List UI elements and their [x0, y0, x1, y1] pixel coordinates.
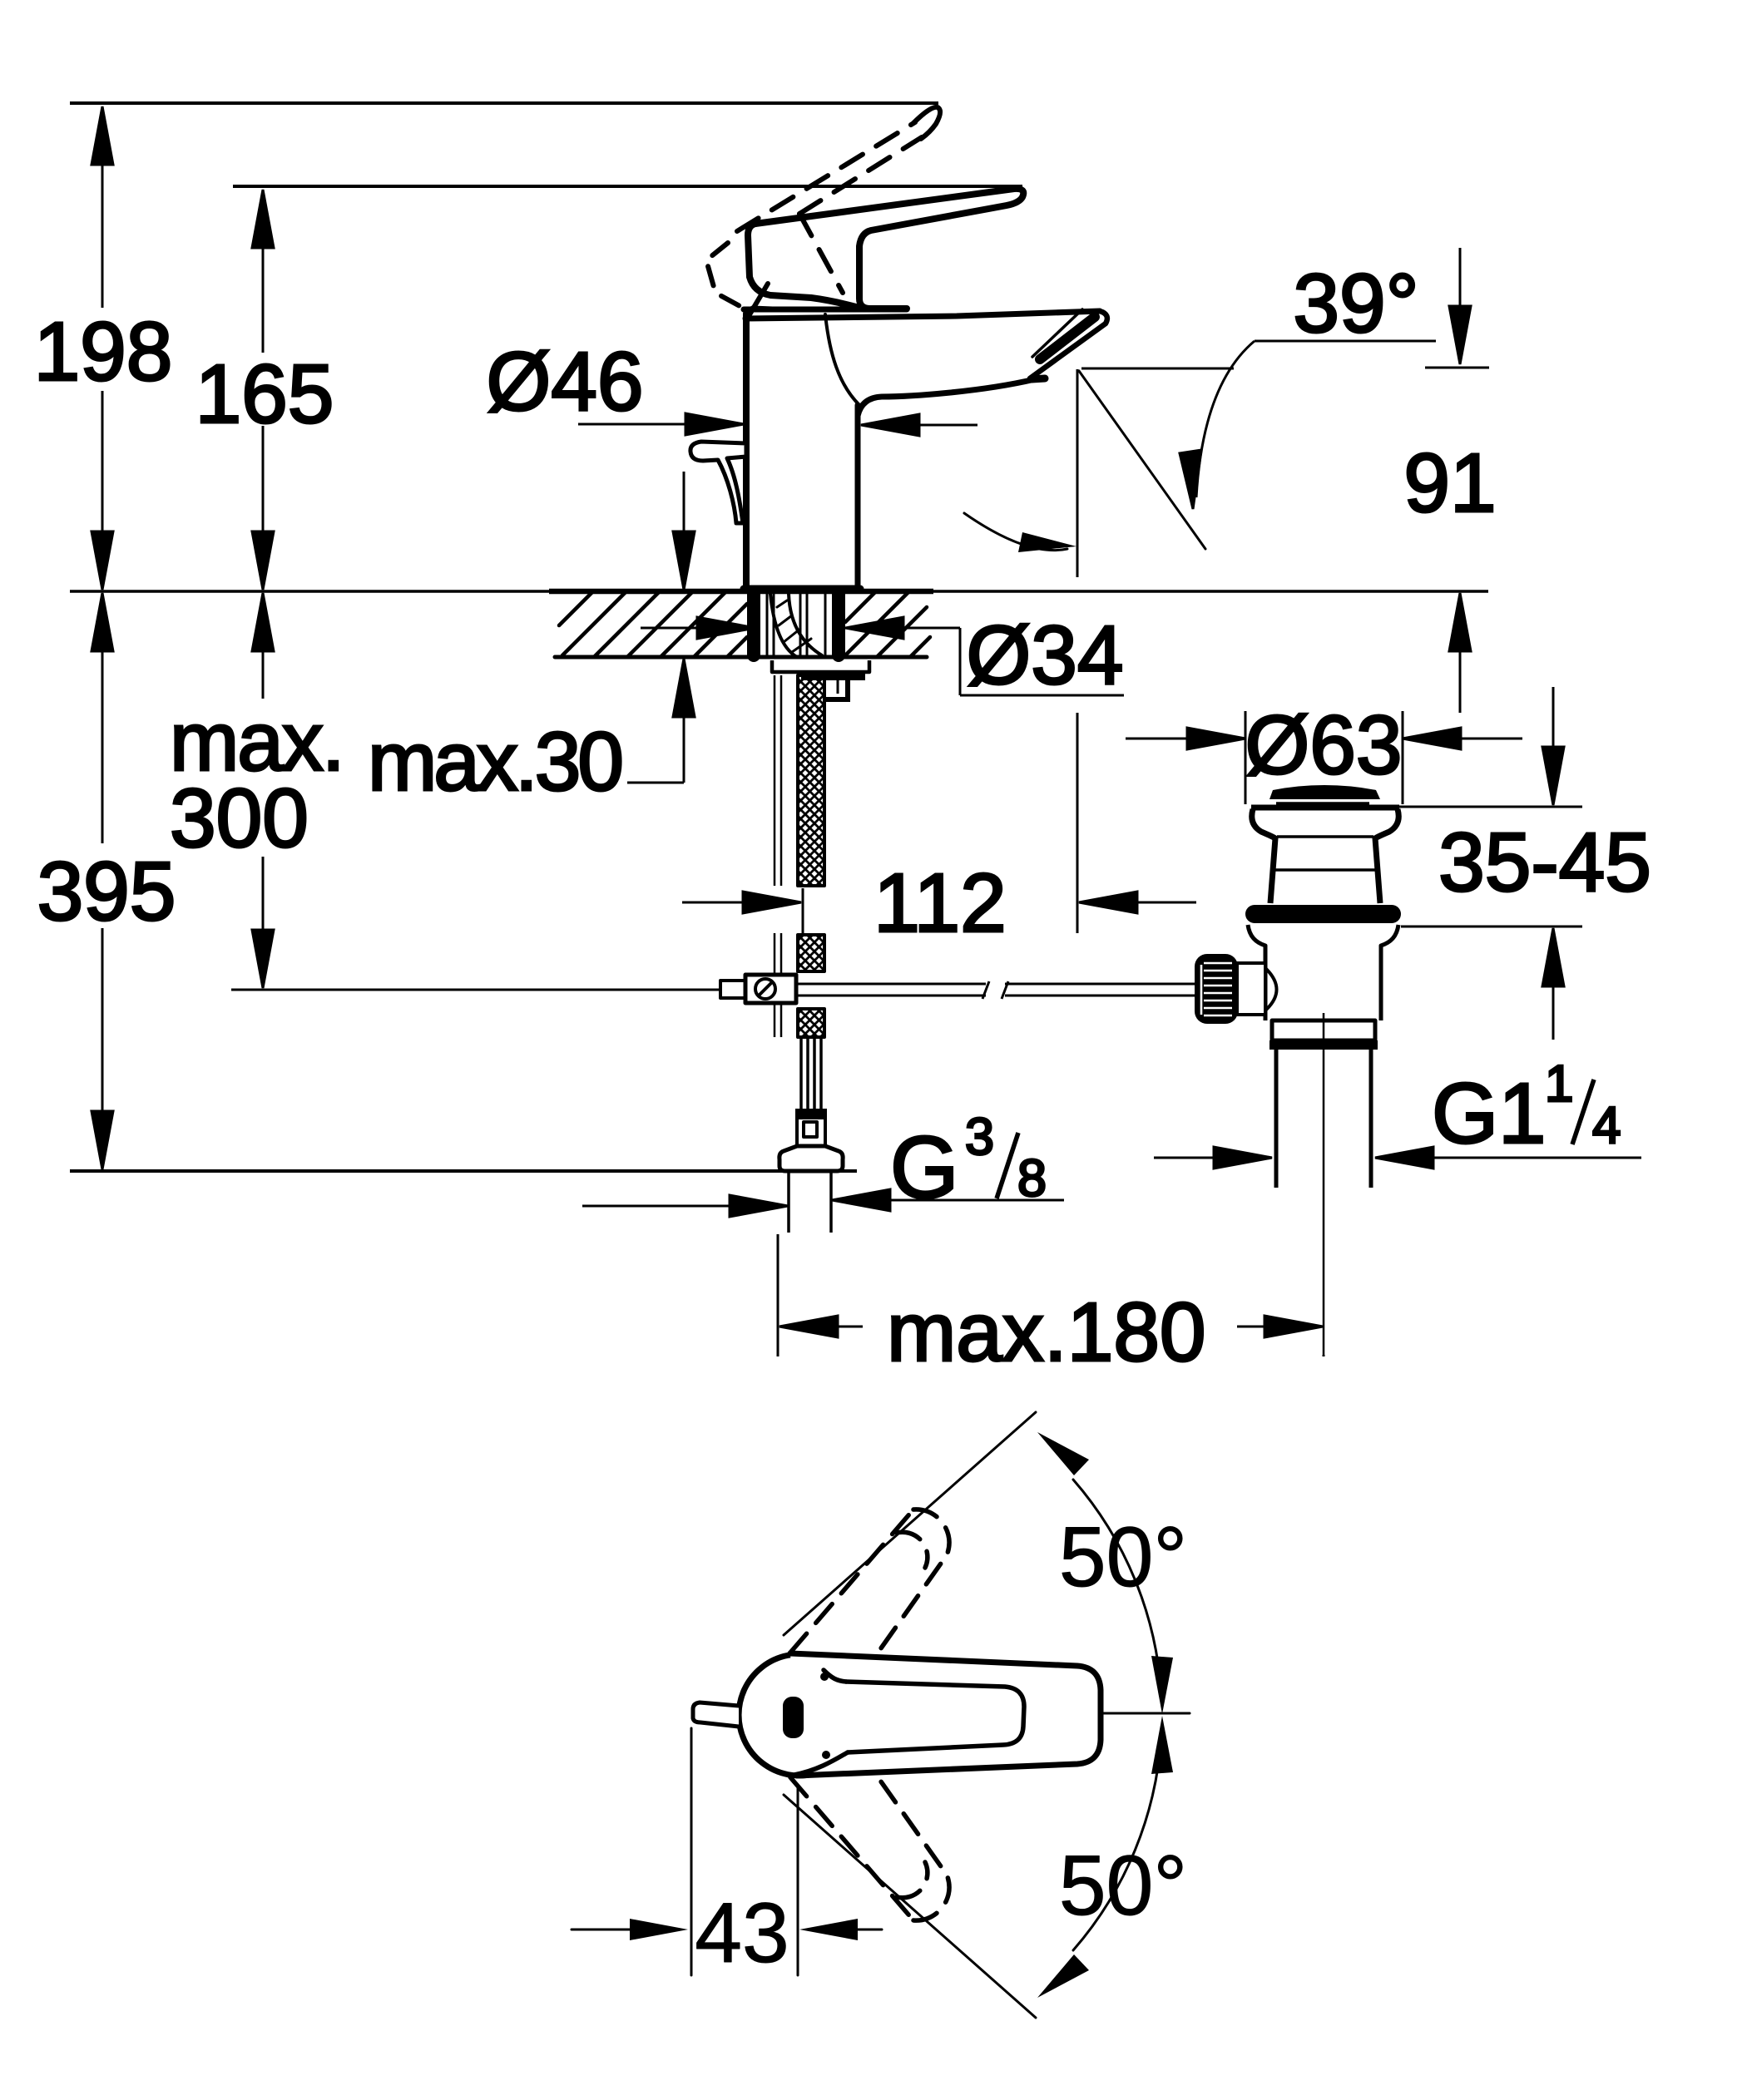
counter hatching right of shank [845, 592, 930, 657]
top view screw dots [820, 1673, 829, 1681]
svg-text:max.30: max.30 [368, 715, 621, 808]
svg-text:50°: 50° [1059, 1510, 1187, 1604]
svg-text:50°: 50° [1059, 1838, 1187, 1933]
top view collar curve bottom [794, 1752, 848, 1775]
top view collar curve top [824, 1670, 846, 1682]
handle base contour line [749, 284, 768, 316]
dimension max.300 vertical line [252, 593, 274, 988]
top view handle head [739, 1654, 814, 1776]
pull rod upper segment [775, 675, 781, 1037]
handle solid back edge [748, 224, 856, 307]
dimension 91 top arrow [1425, 248, 1489, 368]
drain flange top [1251, 805, 1399, 811]
drain body flare right [1381, 925, 1398, 1020]
dimension 43 [572, 1728, 882, 1975]
dimension 165 vertical line [252, 190, 274, 590]
datum line top (handle open tip level) [70, 101, 938, 105]
svg-text:39°: 39° [1293, 257, 1418, 350]
flexible hose short segment below junction [798, 1009, 824, 1037]
drain tailpipe walls [1274, 1050, 1279, 1188]
pop-up rod knob lever at body left [690, 442, 746, 523]
dimension G3/8 arrows [582, 1189, 1064, 1217]
second supply hose stub [845, 680, 850, 699]
hose lower tube [801, 1037, 821, 1109]
horizontal pop-up rod right segment [1005, 984, 1195, 996]
lower arc arrowhead at centerline [1151, 1716, 1173, 1774]
handle solid top edge and tip [755, 189, 1023, 309]
dimension O63 [1126, 711, 1522, 804]
svg-text:Ø46: Ø46 [486, 335, 643, 428]
dimension O46 [578, 413, 977, 436]
39deg leader line [1255, 340, 1436, 343]
svg-text:Ø63: Ø63 [1245, 699, 1402, 792]
rod junction clamp stub [720, 981, 745, 998]
top view lever inner outline [846, 1682, 1024, 1752]
svg-text:112: 112 [874, 857, 1006, 950]
svg-text:43: 43 [695, 1885, 789, 1980]
drain knob connector [1237, 963, 1277, 1015]
pop-up waste cap rim line [1276, 802, 1369, 805]
hose curve inside shank [770, 594, 797, 657]
svg-text:G1: G1 [1432, 1065, 1546, 1161]
drain flange left side [1252, 809, 1275, 903]
faucet base thick line at counter [744, 586, 860, 593]
rod junction clamp block [745, 975, 796, 1003]
upper arc arrowhead at leg [1037, 1432, 1089, 1475]
39deg leader arc with arrow [1196, 341, 1255, 497]
water stream line [1079, 371, 1205, 549]
mounting nut dark band [801, 672, 865, 680]
svg-text:4: 4 [1592, 1097, 1621, 1154]
flexible hose upper braided segment [798, 675, 824, 886]
lower arc arrowhead at leg [1037, 1954, 1089, 1998]
hose end flanged nut [779, 1146, 843, 1171]
dimension G1 1/4 arrows [1154, 1147, 1641, 1169]
top view dashed lever rotated down 50deg [790, 1750, 949, 1920]
counter top datum line [70, 590, 549, 593]
rod break marks [982, 981, 989, 999]
hose fitting nut [797, 1118, 825, 1146]
dimension 35-45 [1398, 687, 1582, 1040]
faucet body top line [744, 307, 907, 313]
label G3/8 [890, 1108, 1047, 1217]
svg-text:395: 395 [37, 845, 176, 938]
threaded shank right wall [832, 592, 845, 655]
aerator inner line [1032, 309, 1082, 357]
svg-text:198: 198 [34, 305, 173, 398]
svg-text:300: 300 [170, 772, 309, 865]
upper arc arrowhead at centerline [1151, 1656, 1173, 1714]
aerator foot [1032, 378, 1045, 379]
drain rubber gasket [1245, 905, 1401, 923]
dimension 395 vertical line [92, 593, 113, 1169]
svg-text:165: 165 [195, 348, 334, 441]
horizontal pop-up rod left segment [796, 984, 986, 996]
top view upper 50deg arc [1073, 1480, 1161, 1695]
top view centerline [991, 1712, 1190, 1715]
aerator dark band [1040, 317, 1095, 359]
svg-text:Ø34: Ø34 [966, 609, 1123, 702]
top view lever outer outline [790, 1653, 1101, 1776]
drain flange inner line upper [1277, 835, 1373, 838]
spout underside curve [858, 379, 1035, 416]
top view 50deg lower leg line [784, 1795, 1036, 2018]
counter hatching left of shank [559, 592, 747, 657]
svg-text:35-45: 35-45 [1438, 816, 1651, 909]
top view slot [783, 1697, 804, 1738]
counter bottom line [555, 655, 927, 660]
dimension max.30 [627, 472, 695, 783]
handle dashed base quad [706, 243, 784, 309]
faucet body right edge [855, 405, 861, 589]
rod junction screw [755, 979, 775, 999]
pop-up waste cap dark band [1269, 785, 1380, 799]
handle dashed tip arc [913, 107, 940, 139]
supply pipe below datum [787, 1171, 790, 1233]
svg-text:1: 1 [1545, 1055, 1573, 1113]
drain body flare left [1248, 925, 1265, 1020]
spout nose and aerator face [1030, 311, 1107, 378]
top view lower 50deg arc [1073, 1735, 1161, 1950]
drain coupling ring [1272, 1020, 1375, 1040]
threaded shank left wall [747, 592, 760, 655]
top view left pin [693, 1702, 739, 1727]
drain knurled knob [1195, 954, 1238, 1024]
shank inner thread lines [767, 594, 825, 655]
spout top line [745, 311, 1100, 319]
dimension max.180 [778, 1234, 1324, 1356]
handle dashed (open) lever edges [737, 122, 922, 293]
flexible hose short segment above junction [798, 935, 824, 971]
mounting washer under counter [772, 660, 869, 672]
body-spout fillet curve [825, 314, 859, 405]
bottom datum line (hose end level) [70, 1169, 857, 1173]
svg-text:91: 91 [1403, 437, 1496, 530]
hose fitting dark band [795, 1109, 827, 1118]
svg-text:max.180: max.180 [887, 1286, 1206, 1379]
top view 50deg upper leg line [784, 1412, 1036, 1635]
dimension 91 bottom arrow [1449, 593, 1471, 713]
faucet body left edge [743, 314, 750, 589]
spout outlet reference line [1081, 368, 1234, 370]
drain tailpipe centerline [1323, 1013, 1325, 1356]
drain coupling dark band [1269, 1040, 1378, 1050]
datum line handle closed tip level [233, 185, 1022, 188]
max.300 reference line [231, 989, 725, 991]
dimension 198 vertical line [92, 106, 113, 590]
drain flange inner line lower [1271, 868, 1379, 872]
svg-text:3: 3 [965, 1108, 994, 1166]
label G1 1/4 [1432, 1055, 1621, 1161]
top view dashed lever rotated up 50deg [790, 1510, 949, 1680]
spray rotation arc with arrow [964, 513, 1067, 551]
drain flange right side [1375, 809, 1398, 903]
dimension 112 [682, 369, 1196, 933]
svg-text:G: G [890, 1119, 958, 1217]
